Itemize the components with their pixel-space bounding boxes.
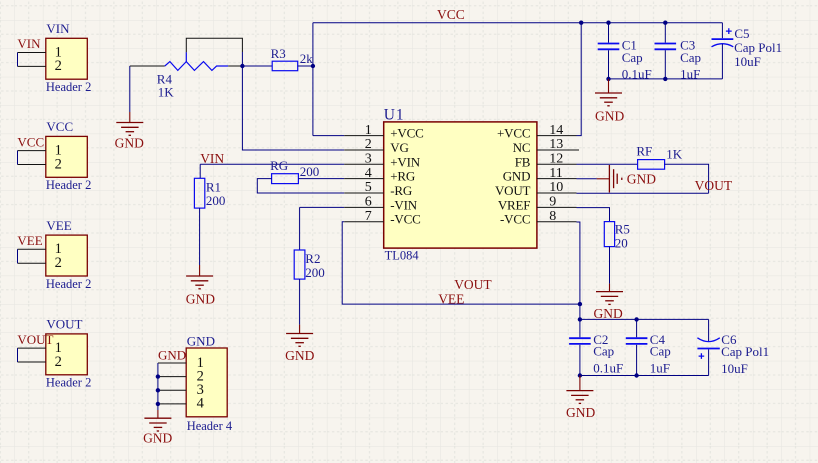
svg-text:U1: U1	[384, 106, 405, 123]
wire pin12 (FB) to RF	[577, 163, 638, 165]
ground (C1 bank)	[595, 79, 624, 124]
svg-text:GND: GND	[593, 306, 622, 321]
svg-text:+RG: +RG	[390, 169, 415, 184]
connector P3 Header 2 (VEE)	[17, 218, 91, 291]
svg-text:GND: GND	[503, 169, 531, 184]
wire pin7 (-VCC) to VEE rail	[342, 222, 580, 304]
svg-text:VOUT: VOUT	[495, 183, 531, 198]
junction node (VEE rail / pin8)	[578, 302, 582, 306]
svg-text:RG: RG	[270, 158, 288, 173]
wire header4 ground bus	[157, 363, 159, 410]
svg-text:Cap Pol1: Cap Pol1	[734, 40, 782, 55]
junction node (C4 top)	[634, 317, 638, 321]
svg-text:200: 200	[300, 164, 320, 179]
svg-text:1: 1	[365, 123, 372, 138]
junction node (hdr4 pin2)	[156, 374, 160, 378]
svg-text:Header 4: Header 4	[187, 419, 233, 433]
junction node (C4 bottom)	[634, 373, 638, 377]
svg-text:1K: 1K	[158, 84, 175, 99]
ground (R5)	[593, 247, 623, 321]
svg-text:RF: RF	[636, 143, 652, 158]
junction node (C2 bottom)	[578, 373, 582, 377]
svg-text:0.1uF: 0.1uF	[593, 360, 623, 375]
svg-text:2k: 2k	[300, 51, 314, 66]
junction node (hdr4 pin3)	[156, 388, 160, 392]
svg-text:-VCC: -VCC	[390, 212, 420, 227]
resistor RG 200	[270, 158, 319, 183]
capacitor C4 1uF	[626, 319, 671, 375]
svg-text:200: 200	[305, 265, 325, 280]
wire pin14 (+VCC) to VCC rail	[577, 23, 582, 136]
svg-text:FB: FB	[515, 154, 531, 169]
junction node (C3 bottom)	[663, 77, 667, 81]
svg-text:13: 13	[549, 137, 563, 152]
svg-text:VCC: VCC	[437, 7, 465, 22]
junction node (R3 / VCC riser / pin1)	[311, 64, 315, 68]
svg-text:-RG: -RG	[390, 183, 412, 198]
wire pin2 (VG)	[242, 66, 344, 150]
svg-text:Cap: Cap	[650, 343, 671, 358]
ground (R2)	[285, 279, 314, 363]
svg-text:10uF: 10uF	[721, 361, 748, 376]
wire pin11 (GND)	[577, 178, 597, 180]
svg-text:NC: NC	[513, 140, 531, 155]
svg-text:14: 14	[549, 123, 563, 138]
capacitor C6 Cap Pol1 10uF	[697, 319, 769, 376]
capacitor C3 1uF	[655, 23, 702, 82]
svg-text:Cap Pol1: Cap Pol1	[721, 344, 769, 359]
svg-text:VIN: VIN	[46, 21, 70, 36]
wire VCC riser	[312, 23, 314, 136]
resistor R1 200	[194, 164, 225, 208]
wire pin6 (-VIN)	[300, 207, 345, 250]
svg-text:C5: C5	[734, 26, 749, 41]
svg-text:R3: R3	[271, 46, 286, 61]
svg-text:VEE: VEE	[438, 291, 464, 306]
svg-text:Header 2: Header 2	[46, 80, 91, 94]
connector P4 Header 2 (VOUT)	[17, 317, 91, 390]
junction node (C1 bottom)	[606, 77, 610, 81]
junction node (VCC rail / pin14)	[579, 21, 583, 25]
wire RF to VOUT	[665, 164, 709, 193]
ground (header4)	[143, 410, 172, 445]
svg-text:GND: GND	[627, 171, 656, 186]
wire pin10 (VOUT)	[577, 192, 709, 194]
svg-text:9: 9	[549, 195, 556, 210]
wire R4 wiper loop	[186, 38, 242, 66]
svg-text:1uF: 1uF	[650, 360, 670, 375]
svg-text:+VIN: +VIN	[390, 154, 420, 169]
svg-text:4: 4	[365, 166, 372, 181]
svg-text:2: 2	[55, 58, 62, 74]
svg-text:VEE: VEE	[17, 233, 42, 248]
svg-text:+VCC: +VCC	[390, 126, 423, 141]
svg-text:6: 6	[365, 195, 372, 210]
wire pin8 (-VCC) down to VEE	[577, 222, 580, 319]
svg-text:VOUT: VOUT	[46, 317, 82, 332]
svg-text:GND: GND	[187, 334, 215, 349]
svg-text:8: 8	[549, 209, 556, 224]
svg-text:-VCC: -VCC	[500, 212, 530, 227]
svg-text:10uF: 10uF	[734, 54, 761, 69]
svg-text:R2: R2	[305, 251, 320, 266]
resistor R5 20	[604, 221, 630, 250]
net label VEE	[438, 291, 464, 306]
capacitor C1 0.1uF	[598, 23, 652, 82]
svg-text:GND: GND	[595, 109, 624, 124]
svg-text:11: 11	[549, 166, 562, 181]
svg-text:GND: GND	[143, 430, 172, 445]
wire bottom cap top rail	[580, 318, 709, 320]
net label VOUT (mid)	[454, 277, 492, 292]
svg-text:GND: GND	[158, 347, 186, 362]
svg-text:Cap: Cap	[593, 343, 614, 358]
svg-text:Header 2: Header 2	[46, 376, 91, 390]
svg-text:5: 5	[365, 180, 372, 195]
capacitor C5 Cap Pol1 10uF	[712, 23, 783, 79]
net VCC rail	[313, 22, 723, 24]
svg-text:3: 3	[365, 152, 372, 167]
wire pin4 (+RG)	[298, 178, 344, 180]
svg-text:VIN: VIN	[17, 36, 41, 51]
resistor RF 1K	[636, 143, 682, 169]
svg-text:1K: 1K	[666, 146, 683, 161]
connector P1 Header 2 (VIN)	[17, 21, 91, 94]
svg-text:4: 4	[197, 396, 205, 412]
net label VOUT	[695, 178, 733, 193]
junction node (hdr4 pin4)	[156, 402, 160, 406]
op-amp IC U1 TL084	[344, 106, 579, 262]
svg-text:Header 2: Header 2	[46, 277, 91, 291]
svg-text:200: 200	[206, 193, 226, 208]
svg-text:R5: R5	[615, 221, 630, 236]
junction node (VCC rail / C3)	[663, 21, 667, 25]
svg-text:VOUT: VOUT	[454, 277, 492, 292]
potentiometer R4 1K	[157, 52, 228, 99]
svg-text:Cap: Cap	[622, 50, 643, 65]
svg-text:VREF: VREF	[498, 197, 530, 212]
svg-text:2: 2	[55, 354, 62, 370]
connector P2 Header 2 (VCC)	[17, 119, 91, 192]
svg-text:+VCC: +VCC	[497, 126, 530, 141]
wire R4 right lead	[228, 65, 242, 67]
svg-text:2: 2	[55, 255, 62, 271]
svg-text:GND: GND	[186, 292, 215, 307]
capacitor C2 0.1uF	[569, 319, 623, 375]
svg-text:VCC: VCC	[17, 134, 44, 149]
wire junction to R3	[242, 65, 272, 67]
wire pin3 (+VIN)	[200, 163, 344, 165]
svg-text:VOUT: VOUT	[17, 332, 53, 347]
svg-text:TL084: TL084	[385, 249, 420, 263]
svg-text:Cap: Cap	[680, 50, 701, 65]
svg-text:GND: GND	[285, 348, 314, 363]
wire R3 to VCC node	[298, 65, 313, 67]
connector P5 Header 4 (GND)	[158, 334, 233, 433]
net label VIN	[200, 151, 224, 166]
wire R4 left lead	[130, 65, 165, 67]
ground (R4 left terminal)	[115, 66, 144, 151]
svg-text:VEE: VEE	[46, 218, 71, 233]
wire bottom cap bottom rail	[580, 375, 709, 377]
ground (C2 bank)	[566, 376, 595, 421]
ground (pin11, rotated)	[597, 165, 657, 193]
svg-text:12: 12	[549, 152, 563, 167]
net label VCC	[437, 7, 465, 22]
svg-text:VIN: VIN	[200, 151, 224, 166]
svg-text:10: 10	[549, 180, 563, 195]
svg-text:Header 2: Header 2	[46, 178, 91, 192]
ground (R1)	[186, 208, 215, 306]
svg-text:2: 2	[55, 156, 62, 172]
junction node (VCC rail / C1)	[606, 21, 610, 25]
svg-text:VCC: VCC	[46, 119, 73, 134]
svg-text:7: 7	[365, 209, 372, 224]
wire pin1 (+VCC)	[313, 135, 344, 137]
svg-text:VOUT: VOUT	[695, 178, 733, 193]
resistor R3 2k	[271, 46, 314, 70]
wire pin9 (VREF) to R5	[577, 208, 610, 222]
svg-text:-VIN: -VIN	[390, 197, 417, 212]
svg-text:GND: GND	[566, 405, 595, 420]
svg-text:20: 20	[615, 235, 628, 250]
junction node (VEE / C2 top rail)	[578, 317, 582, 321]
resistor R2 200	[294, 250, 325, 280]
junction node (R4 / R3 / VG)	[240, 64, 244, 68]
wire RG to pin5 (-RG)	[257, 179, 344, 193]
svg-text:2: 2	[365, 137, 372, 152]
svg-text:GND: GND	[115, 136, 144, 151]
svg-text:VG: VG	[390, 140, 408, 155]
wire top cap bottom rail	[609, 78, 723, 80]
